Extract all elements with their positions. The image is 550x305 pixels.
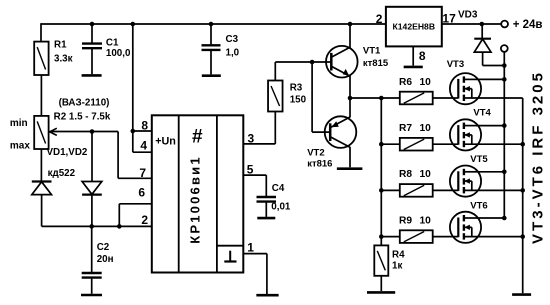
transistor VT5 MOSFET: [450, 166, 481, 197]
wire base junction to VT1: [312, 61, 330, 63]
svg-text:10: 10: [420, 123, 432, 134]
wire regulator ground pin: [412, 46, 414, 65]
svg-text:7: 7: [139, 166, 146, 180]
wire VT3 drain to rail: [476, 78, 504, 80]
capacitor C4: [257, 197, 277, 218]
node diode rail junction: [502, 63, 507, 68]
wire R6 to gate: [433, 97, 459, 99]
wire bus to R8: [381, 189, 400, 191]
svg-text:min: min: [10, 118, 28, 129]
wire bus to R7: [381, 143, 400, 145]
svg-text:R9: R9: [399, 215, 412, 226]
svg-text:VT4: VT4: [473, 107, 491, 118]
label C3 value: [226, 34, 240, 59]
label +24v: [513, 19, 543, 31]
wire VT5 drain to rail: [476, 171, 504, 173]
svg-text:+Un: +Un: [155, 136, 176, 148]
wire VT2 collector to ground: [349, 147, 351, 167]
svg-text:R4: R4: [392, 250, 405, 261]
node emitter junction: [348, 96, 353, 101]
ground symbol inside U1: [217, 246, 243, 262]
label R4 value: [392, 250, 405, 272]
svg-text:4: 4: [140, 139, 147, 153]
svg-text:8: 8: [141, 119, 148, 133]
ground R4: [367, 291, 395, 294]
wire base junction down to VT2: [312, 62, 330, 132]
wire R2 bottom to VD1: [40, 149, 42, 182]
wire VT4 drain to rail: [476, 125, 504, 127]
ground VT2: [337, 167, 363, 170]
node bus junction R8: [379, 188, 384, 193]
svg-text:R1: R1: [54, 40, 67, 51]
capacitor C3: [202, 24, 221, 76]
svg-text:R7: R7: [399, 123, 412, 134]
svg-text:VD1,VD2: VD1,VD2: [47, 147, 88, 158]
pin 1 label: [247, 241, 254, 255]
node bus junction R6: [379, 96, 384, 101]
svg-text:R6: R6: [399, 77, 412, 88]
node VT1 base junction: [310, 60, 315, 65]
svg-text:1к: 1к: [392, 261, 402, 272]
svg-text:кд522: кд522: [48, 168, 76, 179]
terminal +24V: [501, 21, 508, 28]
pin 8 label: [141, 119, 148, 133]
svg-text:R2 1.5 - 7.5k: R2 1.5 - 7.5k: [54, 112, 111, 123]
wire regulator output to +24V terminal: [442, 23, 501, 25]
svg-text:R3: R3: [290, 83, 303, 94]
label KR1006VI1 vertical: [187, 155, 202, 244]
svg-text:VT3: VT3: [447, 59, 464, 70]
transistor VT3 MOSFET: [450, 73, 481, 104]
label VT1: [363, 45, 389, 69]
svg-text:6: 6: [138, 186, 145, 200]
wire R2 wiper to VD2 and pin 7: [50, 132, 152, 179]
wire pin 6 stub: [119, 204, 152, 227]
capacitor C1: [82, 24, 102, 75]
label R1 value: [54, 40, 73, 65]
wire bus to R6: [381, 97, 400, 99]
wire VT2 emitter up: [349, 98, 351, 117]
svg-text:8: 8: [419, 49, 426, 63]
svg-text:(ВАЗ-2110): (ВАЗ-2110): [59, 97, 110, 108]
svg-text:C3: C3: [226, 34, 239, 45]
node VT5 drain junction: [502, 170, 507, 175]
svg-text:1: 1: [247, 241, 254, 255]
resistor R6: [400, 92, 433, 105]
wire bottom timing rail to pin 2: [42, 225, 152, 227]
node C3 junction: [209, 22, 214, 27]
node VD2 C2 junction: [89, 224, 94, 229]
wire pin 3 stub: [243, 112, 275, 144]
svg-text:C2: C2: [97, 242, 110, 253]
label VT6: [470, 200, 487, 211]
label VT2: [307, 147, 332, 169]
svg-text:10: 10: [420, 215, 432, 226]
transistor VT4 MOSFET: [450, 119, 481, 150]
node pin8 drop junction: [131, 22, 136, 27]
potentiometer R2: [34, 116, 48, 149]
svg-text:#: #: [192, 127, 203, 148]
resistor R3: [268, 81, 283, 112]
label R7 value: [399, 123, 431, 134]
label # symbol: [192, 127, 203, 148]
wire R4 to ground: [380, 276, 382, 291]
svg-text:VD3: VD3: [458, 10, 478, 21]
op-amp U1 timer KR1006VI1 body: [152, 115, 244, 272]
wire pin 1 to ground: [243, 254, 267, 294]
wire gate bus: [380, 98, 382, 245]
label VD3: [458, 10, 478, 21]
label C1 value: [106, 37, 131, 59]
transistor VT1: [326, 46, 358, 78]
node bus junction R7: [379, 142, 384, 147]
capacitor C2: [81, 226, 102, 295]
svg-text:C1: C1: [106, 37, 119, 48]
pin 3 label: [248, 131, 255, 145]
label VT3: [447, 59, 464, 70]
svg-text:3.3к: 3.3к: [54, 54, 73, 65]
node VT3 drain junction: [502, 77, 507, 82]
svg-text:150: 150: [290, 94, 307, 105]
voltage regulator U2 K142EN8B: [386, 7, 442, 47]
label R9 value: [399, 215, 431, 226]
wire R1 to R2: [40, 75, 42, 116]
label VT3-VT6 IRF 3205 vertical: [530, 70, 547, 244]
ground pin1: [256, 294, 278, 297]
svg-text:К142ЕН8В: К142ЕН8В: [393, 22, 436, 32]
svg-text:VT6: VT6: [470, 200, 487, 211]
label max: [10, 141, 30, 152]
svg-text:max: max: [10, 141, 30, 152]
wire R1 top lead: [40, 23, 42, 41]
label R6 value: [399, 77, 431, 88]
resistor R9: [400, 230, 433, 243]
pin 2 label: [141, 213, 148, 227]
resistor R7: [400, 138, 433, 151]
wire VT1 collector to rail: [349, 24, 351, 48]
node wiper VD2 junction: [90, 129, 95, 134]
svg-text:VT5: VT5: [470, 154, 488, 165]
label C4 value: [271, 183, 291, 213]
svg-text:R8: R8: [399, 169, 412, 180]
label R8 value: [399, 169, 431, 180]
diode VD1: [32, 182, 52, 227]
label +Un supply: [155, 136, 176, 148]
label K142EN8B: [393, 22, 436, 32]
svg-text:2: 2: [376, 12, 383, 26]
diode VD2: [82, 132, 102, 227]
pin 7 label: [139, 166, 146, 180]
pin 2 label regulator: [376, 12, 383, 26]
label min: [10, 118, 28, 129]
svg-text:10: 10: [420, 77, 432, 88]
wire R8 to gate: [433, 189, 459, 191]
wire pin 5 stub: [243, 175, 266, 196]
node VT4 drain junction: [502, 123, 507, 128]
wire VT6 drain to rail: [476, 217, 504, 219]
transistor VT2: [325, 116, 357, 148]
diode VD3: [474, 24, 504, 66]
pin 17 label regulator: [442, 12, 456, 26]
label R2 designation: [59, 97, 110, 108]
svg-text:5: 5: [247, 162, 254, 176]
node VT5 source junction: [520, 188, 525, 193]
label VT4: [473, 107, 491, 118]
potentiometer R2 wiper arrow: [50, 128, 57, 135]
svg-text:кт816: кт816: [307, 158, 332, 169]
resistor R1: [34, 42, 48, 75]
wire drain rail: [503, 52, 505, 218]
node VT6 drain junction: [502, 216, 507, 221]
svg-text:10: 10: [420, 169, 432, 180]
wire R9 to gate: [433, 236, 459, 238]
svg-text:1,0: 1,0: [226, 47, 240, 58]
node bus junction R9: [379, 234, 384, 239]
terminal load output: [501, 45, 508, 52]
svg-text:VT1: VT1: [363, 45, 381, 56]
node VT6 source junction: [520, 234, 525, 239]
ground source rail: [512, 293, 531, 296]
svg-text:20н: 20н: [97, 254, 114, 265]
svg-text:C4: C4: [272, 183, 285, 194]
pin 6 label: [138, 186, 145, 200]
wire R7 to gate: [433, 143, 459, 145]
svg-text:VT3-VT6 IRF 3205: VT3-VT6 IRF 3205: [530, 70, 547, 244]
wire source rail: [522, 98, 524, 293]
wire VT6 source: [464, 236, 523, 238]
label C2 value: [97, 242, 114, 265]
resistor R4: [374, 245, 388, 275]
wire Vcc drop to pins 8 and 4: [133, 24, 152, 152]
wire bus to R9: [381, 236, 400, 238]
pin 4 label: [140, 139, 147, 153]
svg-text:КР1006ви1: КР1006ви1: [187, 155, 202, 244]
wire VT1 emitter to junction: [349, 76, 351, 98]
label VT5: [470, 154, 488, 165]
node C1 junction: [90, 22, 95, 27]
wire VT3 source: [464, 97, 523, 99]
node pin6 junction: [117, 224, 122, 229]
node VD3 junction: [480, 22, 485, 27]
svg-text:100,0: 100,0: [106, 48, 131, 59]
svg-text:0,01: 0,01: [271, 202, 291, 213]
svg-text:кт815: кт815: [363, 58, 389, 69]
node VT4 source junction: [520, 142, 525, 147]
svg-text:VT2: VT2: [307, 147, 324, 158]
resistor R8: [400, 184, 433, 197]
label R3 value: [290, 83, 307, 106]
wire R3 top to bases: [275, 62, 312, 81]
transistor VT6 MOSFET: [450, 212, 481, 243]
wire VT4 source: [464, 143, 523, 145]
node pin8 corner: [131, 129, 136, 134]
pin 5 label: [247, 162, 254, 176]
wire VT5 source: [464, 189, 523, 191]
svg-text:+ 24в: + 24в: [513, 19, 543, 31]
node VT1 collector junction: [348, 22, 353, 27]
ground regulator: [404, 66, 423, 69]
svg-text:2: 2: [141, 213, 148, 227]
pin 8 label regulator: [419, 49, 426, 63]
wire top +12V rail: [41, 23, 386, 25]
wire emitters to gate bus: [350, 97, 381, 99]
label VD1 VD2: [47, 147, 88, 158]
